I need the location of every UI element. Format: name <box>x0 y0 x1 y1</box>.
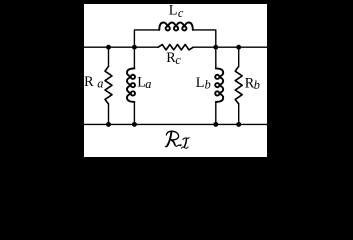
wire: bottom rail <box>84 123 267 125</box>
junction dot: node R_b bottom <box>236 122 241 127</box>
wire: R_a top stub <box>108 47 110 66</box>
junction dot: node L_a / L_c left top <box>132 45 137 50</box>
svg-text:c: c <box>175 53 181 67</box>
wire: L_b top stub <box>215 47 217 68</box>
resistor R_b <box>235 66 242 104</box>
svg-text:L: L <box>169 3 178 19</box>
inductor L_b (vertical coil, humps right) <box>215 68 223 102</box>
svg-text:R: R <box>84 74 94 90</box>
wire: R_b top stub <box>238 47 240 66</box>
junction dot: node L_a bottom <box>132 122 137 127</box>
wire: L_c branch right (horizontal + stub down) <box>193 30 216 47</box>
resistor R_c (zigzag in top rail) <box>158 45 193 50</box>
wire: top rail right segment <box>193 46 267 48</box>
resistor R_a <box>105 66 112 104</box>
svg-text:L: L <box>196 75 205 91</box>
wire: L_b bottom stub <box>215 102 217 125</box>
schematic panel <box>84 4 267 157</box>
wire: L_c branch left (stub up + horizontal) <box>134 30 159 47</box>
label R_I (script subscript I) <box>182 138 190 149</box>
junction dot: node R_a top <box>106 45 111 50</box>
svg-text:a: a <box>145 77 151 91</box>
wire: top rail left segment <box>84 46 158 48</box>
label R_I (script R) <box>166 131 181 147</box>
wire: R_a bottom stub <box>108 104 110 124</box>
wire: R_b bottom stub <box>238 104 240 124</box>
svg-text:b: b <box>205 78 211 92</box>
inductor L_a (vertical coil, humps left) <box>127 68 135 102</box>
inductor L_c (horizontal coil) <box>159 23 193 31</box>
wire: L_a bottom stub <box>133 102 135 125</box>
svg-text:a: a <box>97 76 103 90</box>
svg-text:b: b <box>254 78 260 92</box>
junction dot: node R_b top <box>236 45 241 50</box>
svg-text:c: c <box>178 6 184 20</box>
junction dot: node L_b bottom <box>213 122 218 127</box>
junction dot: node L_b / L_c right top <box>213 45 218 50</box>
wire: L_a top stub <box>133 47 135 68</box>
junction dot: node R_a bottom <box>106 122 111 127</box>
